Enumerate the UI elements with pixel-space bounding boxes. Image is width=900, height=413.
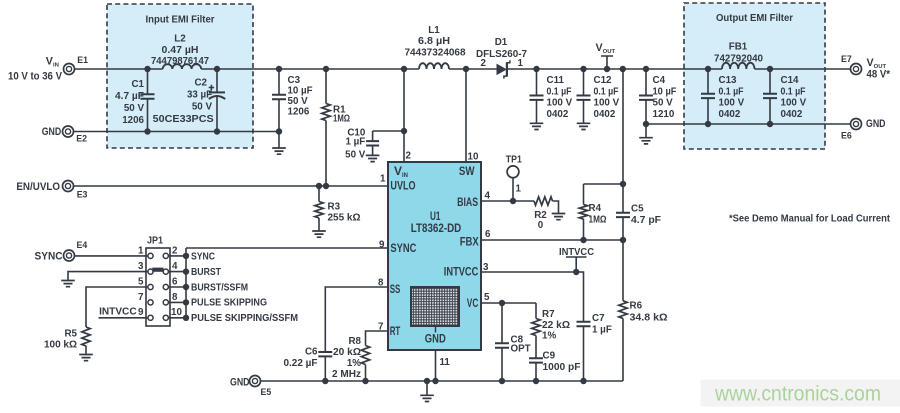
junction dot TP1 <box>510 198 516 204</box>
label E5 <box>261 387 272 397</box>
svg-text:0.1 µF: 0.1 µF <box>719 86 744 97</box>
junction dot VOUT stub <box>604 66 610 72</box>
svg-text:L2: L2 <box>174 34 186 45</box>
svg-text:1: 1 <box>516 184 522 195</box>
ground JP1 pin3 <box>61 281 75 287</box>
label VOUT terminal <box>867 57 891 80</box>
label mode PULSE SKIPPING/SSFM <box>191 313 298 324</box>
svg-text:9: 9 <box>379 240 385 251</box>
input EMI filter box <box>107 4 253 148</box>
capacitor C11 <box>530 69 544 123</box>
capacitor C2 polarized <box>209 69 226 132</box>
svg-text:LT8362-DD: LT8362-DD <box>411 223 462 235</box>
IC label BIAS <box>457 195 478 209</box>
label D1 pin 2 <box>481 58 487 69</box>
svg-text:R3: R3 <box>328 202 341 213</box>
svg-text:50 V: 50 V <box>192 102 213 113</box>
junction dot SW rail <box>463 66 469 72</box>
svg-text:10 µF: 10 µF <box>653 86 677 97</box>
svg-text:50CE33PCS: 50CE33PCS <box>153 114 214 125</box>
svg-text:Input EMI Filter: Input EMI Filter <box>146 15 215 26</box>
svg-text:L1: L1 <box>428 25 440 36</box>
svg-text:C4: C4 <box>653 75 666 86</box>
svg-text:2: 2 <box>481 58 487 69</box>
svg-text:E7: E7 <box>841 54 852 64</box>
junction dot C10 <box>401 128 407 134</box>
svg-text:4.7 µF: 4.7 µF <box>115 91 144 102</box>
label JP1 pin 10 <box>171 307 182 318</box>
capacitor C8 <box>495 303 509 381</box>
ground R3 <box>312 231 326 237</box>
svg-text:1%: 1% <box>347 358 361 369</box>
svg-text:PULSE SKIPPING/SSFM: PULSE SKIPPING/SSFM <box>191 313 298 324</box>
svg-text:VC: VC <box>467 296 479 310</box>
label GND E2 <box>42 126 62 138</box>
label C14 <box>781 75 807 120</box>
svg-text:1%: 1% <box>542 331 556 342</box>
label L2 <box>151 34 210 68</box>
svg-text:R8: R8 <box>348 336 361 347</box>
test point TP1 <box>507 166 519 201</box>
wire VIN pin2 drop <box>403 69 405 162</box>
label C9 <box>543 351 581 374</box>
inductor L2 <box>163 64 201 69</box>
label INTVCC JP1 <box>99 307 137 318</box>
resistor R6 <box>619 240 627 381</box>
svg-text:E6: E6 <box>841 130 852 140</box>
junction dot gnd main <box>424 378 430 384</box>
svg-text:0402: 0402 <box>594 109 616 120</box>
terminal E2 <box>63 126 74 137</box>
svg-text:3: 3 <box>138 261 144 272</box>
svg-text:Output EMI Filter: Output EMI Filter <box>716 13 793 24</box>
svg-text:33 µF: 33 µF <box>187 90 212 101</box>
svg-text:100 V: 100 V <box>719 98 745 109</box>
svg-text:0402: 0402 <box>547 109 569 120</box>
svg-text:22 kΩ: 22 kΩ <box>542 320 570 331</box>
svg-text:C11: C11 <box>547 75 565 86</box>
svg-text:1MΩ: 1MΩ <box>589 215 607 226</box>
svg-text:PULSE SKIPPING: PULSE SKIPPING <box>191 298 267 309</box>
svg-text:GND: GND <box>425 332 446 346</box>
svg-text:U1: U1 <box>430 211 441 223</box>
label EN/UVLO <box>16 181 60 193</box>
svg-text:10 V to 36 V: 10 V to 36 V <box>8 70 63 82</box>
capacitor C14 <box>763 69 777 124</box>
wire BIAS <box>481 200 534 202</box>
svg-text:10 µF: 10 µF <box>288 86 313 97</box>
svg-text:5: 5 <box>484 292 490 303</box>
svg-text:255 kΩ: 255 kΩ <box>328 213 361 224</box>
label U1 pin 3 <box>483 262 489 273</box>
junction dot pin2 rail <box>401 66 407 72</box>
wire VOUT rail <box>508 68 851 70</box>
svg-text:TP1: TP1 <box>506 155 522 166</box>
svg-text:C7: C7 <box>592 313 605 324</box>
svg-text:100 V: 100 V <box>781 98 807 109</box>
wire E4 to JP1 pin1 <box>74 255 148 257</box>
JP1 bus wire <box>168 248 388 318</box>
label U1 pin 7 <box>378 321 384 332</box>
svg-text:0402: 0402 <box>719 109 741 120</box>
wire JP1 pin3 to ground <box>68 272 148 280</box>
svg-text:0.1 µF: 0.1 µF <box>594 86 619 97</box>
svg-text:6: 6 <box>172 277 178 288</box>
terminal E3 <box>63 181 74 192</box>
label TP1 <box>506 155 522 166</box>
IC label RT <box>390 324 401 338</box>
label R5 <box>44 329 78 351</box>
svg-text:R5: R5 <box>64 329 77 340</box>
terminal E4 <box>64 250 75 261</box>
svg-text:BURST/SSFM: BURST/SSFM <box>191 282 248 293</box>
net label INTVCC <box>559 247 594 272</box>
svg-text:C2: C2 <box>194 78 207 89</box>
svg-text:10: 10 <box>171 307 182 318</box>
label JP1 pin 4 <box>172 261 178 272</box>
svg-text:E1: E1 <box>77 55 88 65</box>
svg-text:SS: SS <box>390 282 401 296</box>
label E6 <box>841 130 852 140</box>
capacitor C9 <box>529 358 543 381</box>
svg-text:1210: 1210 <box>653 109 675 120</box>
input EMI filter title <box>146 15 215 26</box>
label GND E5 <box>230 377 250 389</box>
terminal E5 <box>250 376 261 387</box>
label JP1 pin 5 <box>138 277 144 288</box>
note load current <box>729 214 891 225</box>
wire SW drop <box>465 69 467 162</box>
label R4 <box>589 203 607 226</box>
wire FBX <box>481 239 623 241</box>
label C4 <box>653 75 677 120</box>
svg-text:10: 10 <box>468 152 479 163</box>
svg-text:50 V: 50 V <box>124 103 145 114</box>
svg-text:50 V: 50 V <box>345 149 366 160</box>
label U1 pin 10 <box>468 152 479 163</box>
ground C11 <box>530 123 544 129</box>
svg-text:9: 9 <box>138 307 144 318</box>
svg-text:0.1 µF: 0.1 µF <box>547 86 572 97</box>
svg-text:4.7 pF: 4.7 pF <box>631 215 661 226</box>
wire VC <box>481 302 536 304</box>
junction dot C12 <box>580 66 586 72</box>
svg-text:C13: C13 <box>719 75 738 86</box>
junction dot C9 <box>533 378 539 384</box>
svg-text:6.8 µH: 6.8 µH <box>418 36 450 47</box>
watermark band <box>701 380 900 407</box>
svg-text:2: 2 <box>406 151 412 162</box>
svg-text:74437324068: 74437324068 <box>405 48 467 59</box>
junction dot C6 <box>322 378 328 384</box>
label U1 pin 11 <box>440 357 451 368</box>
resistor R2 <box>534 197 553 205</box>
capacitor C6 <box>318 352 332 381</box>
resistor R8 <box>361 346 369 382</box>
label C6 <box>284 347 319 369</box>
label JP1 pin 8 <box>172 292 178 303</box>
label C8 <box>511 335 531 355</box>
label E2 <box>76 133 87 143</box>
junction dots C13 <box>705 66 711 127</box>
capacitor C4 <box>639 69 653 137</box>
ground C10 <box>366 155 380 161</box>
IC U1 name <box>411 211 462 235</box>
label FB1 <box>714 42 764 65</box>
resistor R3 <box>315 186 323 231</box>
IC label FBX <box>460 235 479 249</box>
svg-text:*See Demo Manual for Load Curr: *See Demo Manual for Load Current <box>729 214 891 225</box>
junction dot FB line top <box>620 66 626 72</box>
svg-text:C1: C1 <box>131 79 144 90</box>
label VIN terminal <box>46 56 59 69</box>
resistor R1 <box>322 69 330 186</box>
label C12 <box>594 75 620 120</box>
svg-text:20 kΩ: 20 kΩ <box>333 347 361 358</box>
resistor R7 <box>532 303 540 358</box>
svg-text:C3: C3 <box>288 75 301 86</box>
wire RT <box>366 331 389 346</box>
label mode SYNC <box>191 252 215 263</box>
svg-text:50 V: 50 V <box>653 98 674 109</box>
svg-text:SYNC: SYNC <box>35 251 63 263</box>
label E1 <box>77 55 88 65</box>
ground C12 <box>577 123 591 129</box>
label SYNC E4 <box>35 251 63 263</box>
junction dots C3 <box>276 66 282 135</box>
IC pad GND <box>411 287 459 333</box>
connector JP1 <box>146 248 170 326</box>
svg-text:R4: R4 <box>589 203 602 214</box>
svg-text:1000 pF: 1000 pF <box>543 362 581 373</box>
label C5 <box>631 204 661 227</box>
svg-text:www.cntronics.com: www.cntronics.com <box>714 382 881 406</box>
svg-text:UVLO: UVLO <box>390 179 415 193</box>
wire input GND rail <box>73 131 279 133</box>
IC label INTVCC <box>444 265 479 279</box>
IC label SS <box>390 282 401 296</box>
wire bottom GND rail <box>260 380 623 382</box>
wire U1 pin 11 <box>435 350 437 381</box>
svg-text:OPT: OPT <box>511 344 531 355</box>
svg-text:C12: C12 <box>594 75 613 86</box>
label U1 pin 9 <box>379 240 385 251</box>
junction dot C11 <box>533 66 539 72</box>
label E7 <box>841 54 852 64</box>
wire output GND rail <box>646 123 851 125</box>
wire VOUT feedback drop <box>622 69 624 240</box>
resistor R5 <box>82 327 90 354</box>
svg-text:1 µF: 1 µF <box>592 325 612 336</box>
output EMI filter title <box>716 13 793 24</box>
svg-text:100 V: 100 V <box>594 98 620 109</box>
junction dot INTVCC <box>573 269 579 275</box>
inductor L1 <box>419 63 449 69</box>
IC U1 body <box>388 162 481 350</box>
terminal E1 <box>64 64 75 75</box>
svg-text:0.22 µF: 0.22 µF <box>284 358 318 369</box>
label JP1 pin 2 <box>172 246 178 257</box>
label R8 <box>332 336 362 380</box>
label U1 pin 2 <box>406 151 412 162</box>
junction dots input filter <box>144 66 220 135</box>
svg-text:5: 5 <box>138 277 144 288</box>
label JP1 pin 1 <box>138 246 144 257</box>
svg-text:1: 1 <box>380 174 386 185</box>
junction dot R8 <box>362 378 368 384</box>
label mode BURST/SSFM <box>191 282 248 293</box>
label VIN range <box>8 70 63 82</box>
IC label UVLO <box>390 179 415 193</box>
svg-text:D1: D1 <box>495 37 508 48</box>
label D1 <box>476 37 528 60</box>
wire R2 to ground <box>553 201 559 213</box>
label mode BURST <box>191 267 221 278</box>
svg-text:SYNC: SYNC <box>390 241 416 255</box>
capacitor C7 <box>577 322 591 381</box>
label C11 <box>547 75 573 120</box>
label U1 pin 6 <box>485 229 491 240</box>
label E3 <box>77 189 88 199</box>
capacitor C3 <box>272 69 286 132</box>
svg-text:100 kΩ: 100 kΩ <box>44 340 77 351</box>
ferrite bead FB1 <box>722 63 754 69</box>
label C3 <box>288 75 313 118</box>
junction dots C8 <box>499 300 505 384</box>
label D1 pin 1 <box>518 58 524 69</box>
svg-text:RT: RT <box>390 324 401 338</box>
svg-text:48 V*: 48 V* <box>867 68 891 80</box>
label JP1 pin 9 <box>138 307 144 318</box>
wire JP1 pin5 to R5 <box>86 287 148 327</box>
svg-text:0402: 0402 <box>781 109 803 120</box>
IC label VC <box>467 296 479 310</box>
svg-text:GND: GND <box>866 118 886 130</box>
svg-text:C5: C5 <box>631 204 644 215</box>
junction dot R1 top <box>323 66 329 72</box>
svg-text:E2: E2 <box>76 133 87 143</box>
svg-text:FBX: FBX <box>460 235 479 249</box>
svg-text:GND: GND <box>230 377 250 389</box>
svg-text:E3: E3 <box>77 189 88 199</box>
junction dots FBX <box>580 181 626 243</box>
label U1 pin 5 <box>484 292 490 303</box>
wire EN/UVLO <box>73 185 388 187</box>
label U1 pin 8 <box>378 277 384 288</box>
label TP1 pin 1 <box>516 184 522 195</box>
svg-text:34.8 kΩ: 34.8 kΩ <box>630 313 668 324</box>
capacitor C5 <box>616 213 630 217</box>
svg-text:4: 4 <box>172 261 178 272</box>
svg-text:1: 1 <box>518 58 524 69</box>
svg-text:C14: C14 <box>781 75 800 86</box>
label U1 pin 1 <box>380 174 386 185</box>
ground main <box>420 381 434 402</box>
ground R2 <box>552 214 566 220</box>
label R2 <box>534 210 547 231</box>
ground C3 <box>272 132 286 155</box>
svg-text:INTVCC: INTVCC <box>99 307 137 318</box>
wire SS <box>325 287 388 352</box>
svg-text:4: 4 <box>485 191 491 202</box>
wire VIN rail <box>74 68 497 70</box>
capacitor C12 <box>577 69 591 123</box>
IC label SW <box>459 164 475 178</box>
label JP1 pin 6 <box>172 277 178 288</box>
svg-text:EN/UVLO: EN/UVLO <box>16 181 60 193</box>
terminal E6 <box>851 119 862 130</box>
svg-text:R7: R7 <box>542 309 555 320</box>
label GND E6 <box>866 118 886 130</box>
junction dot pin11 <box>432 378 438 384</box>
svg-text:74479876147: 74479876147 <box>151 56 210 67</box>
svg-text:1MΩ: 1MΩ <box>333 114 350 125</box>
svg-text:INTVCC: INTVCC <box>444 265 479 279</box>
junction dots C4 <box>643 66 649 127</box>
svg-text:1: 1 <box>138 246 144 257</box>
diode D1 <box>497 60 510 78</box>
svg-text:BURST: BURST <box>191 267 221 278</box>
svg-text:1 µF: 1 µF <box>345 136 365 147</box>
label JP1 <box>147 235 163 247</box>
svg-text:SYNC: SYNC <box>191 252 215 263</box>
wire INTVCC pin3 <box>481 272 584 322</box>
label L1 <box>405 25 467 59</box>
label JP1 pin 3 <box>138 261 144 272</box>
junction dot C7 <box>580 378 586 384</box>
svg-text:SW: SW <box>459 164 475 178</box>
svg-text:0.1 µF: 0.1 µF <box>781 86 806 97</box>
svg-text:742792040: 742792040 <box>714 54 764 65</box>
svg-text:8: 8 <box>172 292 178 303</box>
svg-text:R6: R6 <box>630 301 643 312</box>
label C13 <box>719 75 745 120</box>
svg-text:BIAS: BIAS <box>457 195 478 209</box>
label R3 <box>328 202 361 224</box>
watermark text www.cntronics.com <box>714 382 881 406</box>
svg-text:FB1: FB1 <box>729 42 748 53</box>
label JP1 pin 7 <box>138 292 144 303</box>
IC label VIN <box>394 164 408 179</box>
svg-text:2: 2 <box>172 246 178 257</box>
ground R5 <box>79 355 93 361</box>
label C10 <box>345 128 366 161</box>
svg-text:1206: 1206 <box>288 107 310 118</box>
label C1 <box>115 79 145 126</box>
svg-text:GND: GND <box>42 126 62 138</box>
wire JP1 pin9 INTVCC stub <box>99 317 148 319</box>
IC label SYNC <box>390 241 416 255</box>
svg-text:7: 7 <box>138 292 144 303</box>
label E4 <box>77 240 88 250</box>
label U1 pin 4 <box>485 191 491 202</box>
resistor R4 <box>579 184 623 240</box>
net label VOUT <box>596 42 616 69</box>
label R1 <box>333 105 350 125</box>
label R7 <box>542 309 570 342</box>
label C2 <box>153 78 214 126</box>
svg-text:C9: C9 <box>543 351 556 362</box>
label C7 <box>592 313 612 336</box>
junction dots EN <box>316 183 329 189</box>
svg-text:0.47 µH: 0.47 µH <box>162 45 199 56</box>
JP1 bus dots <box>183 253 189 321</box>
output EMI filter box <box>684 3 825 149</box>
terminal E7 <box>851 64 862 75</box>
svg-text:100 V: 100 V <box>547 98 573 109</box>
IC label GND pad <box>425 332 446 346</box>
svg-text:2 MHz: 2 MHz <box>332 369 361 380</box>
